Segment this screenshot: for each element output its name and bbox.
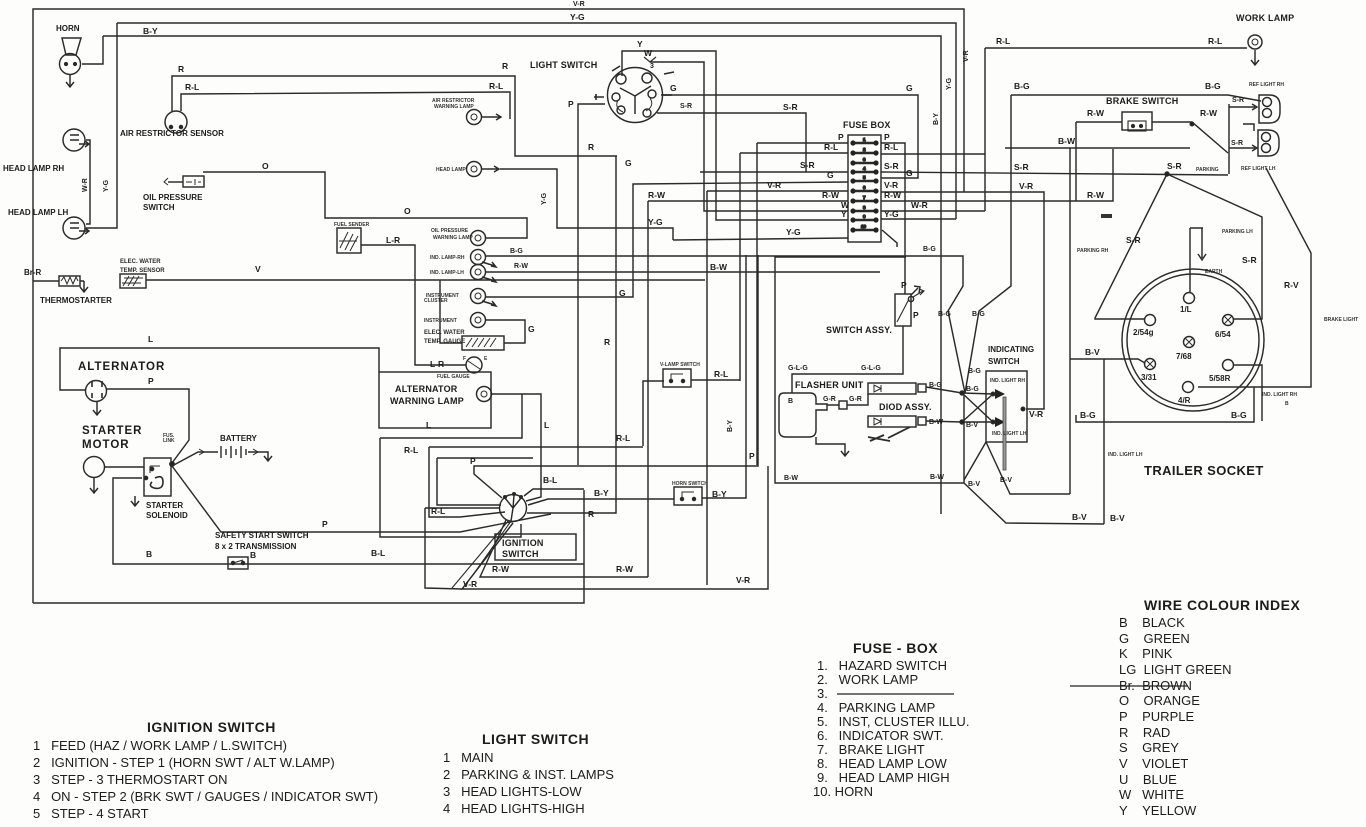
svg-text:B-G: B-G xyxy=(923,246,936,253)
svg-text:TEMP. GAUGE: TEMP. GAUGE xyxy=(424,339,465,345)
svg-text:SWITCH ASSY.: SWITCH ASSY. xyxy=(826,325,892,335)
svg-text:3 HEAD LIGHTS-LOW: 3 HEAD LIGHTS-LOW xyxy=(443,784,582,799)
svg-text:7. BRAKE LIGHT: 7. BRAKE LIGHT xyxy=(817,742,925,757)
svg-text:1 MAIN: 1 MAIN xyxy=(443,750,494,765)
svg-text:B BLACK: B BLACK xyxy=(1119,615,1185,630)
svg-text:5/58R: 5/58R xyxy=(1209,374,1231,383)
svg-text:B-W: B-W xyxy=(929,419,943,426)
svg-text:K PINK: K PINK xyxy=(1119,646,1173,661)
svg-text:B-Y: B-Y xyxy=(727,420,734,432)
svg-text:B-G: B-G xyxy=(1231,410,1247,420)
svg-text:2 PARKING & INST. LAMPS: 2 PARKING & INST. LAMPS xyxy=(443,767,614,782)
svg-text:B-W: B-W xyxy=(1058,136,1076,146)
svg-text:G: G xyxy=(619,288,626,298)
svg-text:R-L: R-L xyxy=(489,81,503,91)
svg-text:IND. LIGHT LH: IND. LIGHT LH xyxy=(1108,452,1143,458)
svg-text:P PURPLE: P PURPLE xyxy=(1119,709,1194,724)
svg-text:R-W: R-W xyxy=(1087,190,1105,200)
svg-text:SWITCH: SWITCH xyxy=(502,549,539,559)
svg-text:O: O xyxy=(404,206,411,216)
svg-text:G: G xyxy=(906,168,913,178)
svg-text:HORN SWITCH: HORN SWITCH xyxy=(672,481,708,487)
svg-text:P: P xyxy=(884,132,890,142)
svg-text:B-V: B-V xyxy=(1085,347,1100,357)
svg-text:S GREY: S GREY xyxy=(1119,740,1179,755)
svg-text:B-V: B-V xyxy=(1072,512,1087,522)
svg-text:R-L: R-L xyxy=(1208,36,1222,46)
svg-text:LIGHT SWITCH: LIGHT SWITCH xyxy=(482,731,589,747)
svg-text:S-R: S-R xyxy=(1014,162,1029,172)
svg-text:S-R: S-R xyxy=(680,103,692,110)
svg-text:DIOD ASSY.: DIOD ASSY. xyxy=(879,402,932,412)
svg-text:O: O xyxy=(262,161,269,171)
svg-text:ALTERNATOR: ALTERNATOR xyxy=(78,361,165,373)
svg-text:Y-G: Y-G xyxy=(648,217,663,227)
svg-text:B: B xyxy=(146,549,152,559)
svg-text:R-W: R-W xyxy=(822,190,840,200)
svg-text:9. HEAD LAMP HIGH: 9. HEAD LAMP HIGH xyxy=(817,770,950,785)
svg-text:R: R xyxy=(604,337,610,347)
svg-text:R-L: R-L xyxy=(996,36,1010,46)
svg-text:R: R xyxy=(588,509,594,519)
svg-text:MOTOR: MOTOR xyxy=(82,439,130,451)
svg-text:6. INDICATOR SWT.: 6. INDICATOR SWT. xyxy=(817,728,944,743)
svg-text:1 FEED (HAZ / WORK LAMP / L.: 1 FEED (HAZ / WORK LAMP / L.SWITCH) xyxy=(33,738,287,753)
svg-text:R-L: R-L xyxy=(884,142,898,152)
svg-text:B-G: B-G xyxy=(972,311,985,318)
svg-text:SOLENOID: SOLENOID xyxy=(146,511,188,520)
svg-text:R-W: R-W xyxy=(616,564,634,574)
svg-text:S-R: S-R xyxy=(884,161,899,171)
svg-text:3.: 3. xyxy=(817,686,828,701)
svg-text:V-R: V-R xyxy=(463,579,477,589)
svg-text:U BLUE: U BLUE xyxy=(1119,772,1177,787)
svg-text:V-R: V-R xyxy=(767,180,781,190)
svg-text:S-R: S-R xyxy=(1232,97,1244,104)
svg-text:S-R: S-R xyxy=(1167,161,1182,171)
svg-text:2/54g: 2/54g xyxy=(1133,328,1154,337)
svg-text:B-Y: B-Y xyxy=(143,26,158,36)
svg-text:B-W: B-W xyxy=(930,474,944,481)
svg-text:R: R xyxy=(178,64,184,74)
svg-text:4 HEAD LIGHTS-HIGH: 4 HEAD LIGHTS-HIGH xyxy=(443,801,585,816)
svg-text:G-R: G-R xyxy=(823,396,836,403)
svg-text:W-R: W-R xyxy=(82,178,89,192)
svg-text:V-R: V-R xyxy=(1019,181,1033,191)
svg-text:SWITCH: SWITCH xyxy=(143,203,175,212)
svg-text:5. INST, CLUSTER ILLU.: 5. INST, CLUSTER ILLU. xyxy=(817,714,969,729)
svg-text:B-V: B-V xyxy=(968,481,980,488)
svg-text:R-L: R-L xyxy=(431,506,445,516)
svg-text:Y-G: Y-G xyxy=(786,227,801,237)
svg-text:FUEL SENDER: FUEL SENDER xyxy=(334,222,370,228)
svg-text:EARTH: EARTH xyxy=(1205,269,1223,275)
svg-text:AIR RESTRICTOR SENSOR: AIR RESTRICTOR SENSOR xyxy=(120,129,224,138)
svg-text:PARKING: PARKING xyxy=(1196,167,1219,173)
svg-text:1/L: 1/L xyxy=(1180,305,1192,314)
svg-text:L-R: L-R xyxy=(430,359,444,369)
svg-text:B-V: B-V xyxy=(1000,477,1012,484)
svg-text:R-W: R-W xyxy=(884,190,902,200)
svg-text:V-R: V-R xyxy=(736,575,750,585)
svg-text:B-Y: B-Y xyxy=(712,489,727,499)
svg-text:WIRE COLOUR INDEX: WIRE COLOUR INDEX xyxy=(1144,597,1300,613)
svg-text:L-R: L-R xyxy=(386,235,400,245)
svg-text:4 ON - STEP 2 (BRK SWT / GAU: 4 ON - STEP 2 (BRK SWT / GAUGES / INDICA… xyxy=(33,789,378,804)
svg-text:B-G: B-G xyxy=(1014,81,1030,91)
svg-text:G GREEN: G GREEN xyxy=(1119,631,1190,646)
svg-text:IND. LIGHT LH: IND. LIGHT LH xyxy=(992,431,1027,437)
svg-text:W-R: W-R xyxy=(911,200,928,210)
svg-text:IGNITION: IGNITION xyxy=(502,538,544,548)
svg-text:B-Y: B-Y xyxy=(594,488,609,498)
svg-text:W WHITE: W WHITE xyxy=(1119,787,1184,802)
svg-text:G: G xyxy=(528,324,535,334)
svg-text:B: B xyxy=(250,550,256,560)
svg-text:ELEC. WATER: ELEC. WATER xyxy=(120,259,161,265)
svg-text:IGNITION SWITCH: IGNITION SWITCH xyxy=(147,719,276,735)
svg-text:R RAD: R RAD xyxy=(1119,725,1170,740)
svg-text:STARTER: STARTER xyxy=(146,501,183,510)
svg-text:FLASHER UNIT: FLASHER UNIT xyxy=(795,380,864,390)
svg-text:HEAD LAMP RH: HEAD LAMP RH xyxy=(3,164,64,173)
svg-text:B-W: B-W xyxy=(784,475,798,482)
svg-text:INDICATING: INDICATING xyxy=(988,345,1034,354)
svg-text:R-W: R-W xyxy=(514,263,528,270)
svg-text:TEMP. SENSOR: TEMP. SENSOR xyxy=(120,268,165,274)
svg-text:L: L xyxy=(544,420,549,430)
svg-text:PARKING RH: PARKING RH xyxy=(1077,248,1109,254)
svg-text:L: L xyxy=(148,334,153,344)
svg-text:P: P xyxy=(913,310,919,320)
svg-text:O ORANGE: O ORANGE xyxy=(1119,693,1200,708)
svg-text:10: 10 xyxy=(861,224,867,229)
svg-text:S-R: S-R xyxy=(800,160,815,170)
svg-text:1. HAZARD SWITCH: 1. HAZARD SWITCH xyxy=(817,658,947,673)
svg-text:LG LIGHT GREEN: LG LIGHT GREEN xyxy=(1119,662,1231,677)
svg-text:Y-G: Y-G xyxy=(570,12,585,22)
svg-text:B: B xyxy=(1285,401,1289,407)
svg-text:V: V xyxy=(255,264,261,274)
svg-text:B-G: B-G xyxy=(1080,410,1096,420)
svg-text:R-W: R-W xyxy=(1200,108,1218,118)
svg-text:B-G: B-G xyxy=(966,386,979,393)
svg-text:V-R: V-R xyxy=(884,180,898,190)
svg-text:B-V: B-V xyxy=(1110,513,1125,523)
svg-text:P: P xyxy=(901,280,907,290)
svg-text:HORN: HORN xyxy=(56,24,80,33)
svg-text:IND. LIGHT RH: IND. LIGHT RH xyxy=(990,378,1025,384)
svg-text:V-LAMP SWITCH: V-LAMP SWITCH xyxy=(660,362,700,368)
svg-text:4/R: 4/R xyxy=(1178,396,1191,405)
svg-text:F: F xyxy=(463,356,466,362)
svg-text:Y: Y xyxy=(841,209,847,219)
svg-text:PARKING LH: PARKING LH xyxy=(1222,229,1253,235)
svg-text:R: R xyxy=(502,61,508,71)
svg-text:R-L: R-L xyxy=(404,445,418,455)
svg-text:4. PARKING LAMP: 4. PARKING LAMP xyxy=(817,700,935,715)
svg-text:B-L: B-L xyxy=(371,548,385,558)
svg-text:G: G xyxy=(670,83,677,93)
svg-text:B-Y: B-Y xyxy=(933,113,940,125)
svg-text:CLUSTER: CLUSTER xyxy=(424,298,448,304)
svg-text:SWITCH: SWITCH xyxy=(988,357,1020,366)
svg-text:B-G: B-G xyxy=(510,248,523,255)
svg-text:REF LIGHT LH: REF LIGHT LH xyxy=(1241,166,1276,172)
svg-text:STARTER: STARTER xyxy=(82,425,142,437)
svg-text:R-L: R-L xyxy=(185,82,199,92)
svg-text:Y-G: Y-G xyxy=(541,192,548,205)
svg-text:Y-G: Y-G xyxy=(884,209,899,219)
svg-text:G-L-G: G-L-G xyxy=(861,365,881,372)
svg-text:B-G: B-G xyxy=(929,382,942,389)
svg-text:B-G: B-G xyxy=(938,311,951,318)
svg-text:V VIOLET: V VIOLET xyxy=(1119,756,1188,771)
svg-text:V-R: V-R xyxy=(1029,409,1043,419)
svg-text:IND. LIGHT RH: IND. LIGHT RH xyxy=(1262,392,1297,398)
svg-text:Y YELLOW: Y YELLOW xyxy=(1119,803,1197,818)
svg-text:10. HORN: 10. HORN xyxy=(813,784,873,799)
svg-text:B-G: B-G xyxy=(968,368,981,375)
svg-text:WORK LAMP: WORK LAMP xyxy=(1236,13,1294,23)
svg-text:WARNING LAMP: WARNING LAMP xyxy=(434,104,474,110)
svg-text:P: P xyxy=(322,519,328,529)
svg-text:G-R: G-R xyxy=(849,396,862,403)
svg-text:Br-R: Br-R xyxy=(24,268,42,277)
svg-text:P: P xyxy=(148,376,154,386)
svg-text:TRAILER SOCKET: TRAILER SOCKET xyxy=(1144,463,1264,478)
svg-text:R-W: R-W xyxy=(648,190,666,200)
svg-text:6/54: 6/54 xyxy=(1215,330,1231,339)
svg-text:THERMOSTARTER: THERMOSTARTER xyxy=(40,296,112,305)
svg-text:WARNING LAMP: WARNING LAMP xyxy=(433,235,473,241)
svg-text:B-V: B-V xyxy=(966,422,978,429)
svg-text:BATTERY: BATTERY xyxy=(220,434,258,443)
svg-text:G: G xyxy=(827,170,834,180)
svg-text:8. HEAD LAMP LOW: 8. HEAD LAMP LOW xyxy=(817,756,948,771)
svg-text:S-R: S-R xyxy=(1242,255,1257,265)
svg-text:3: 3 xyxy=(650,63,654,70)
svg-text:G: G xyxy=(625,158,632,168)
svg-text:R-L: R-L xyxy=(824,142,838,152)
svg-text:3/31: 3/31 xyxy=(1141,373,1157,382)
svg-text:R-W: R-W xyxy=(492,564,510,574)
svg-text:FUSE - BOX: FUSE - BOX xyxy=(853,640,938,656)
svg-text:W: W xyxy=(644,48,653,58)
svg-text:V-R: V-R xyxy=(963,50,970,62)
svg-text:REF LIGHT RH: REF LIGHT RH xyxy=(1249,82,1284,88)
svg-text:SAFETY START SWITCH: SAFETY START SWITCH xyxy=(215,531,309,540)
svg-text:B-W: B-W xyxy=(710,262,728,272)
svg-text:S-R: S-R xyxy=(1231,140,1243,147)
svg-text:3 STEP - 3 THERMOSTART ON: 3 STEP - 3 THERMOSTART ON xyxy=(33,772,228,787)
svg-text:LINK: LINK xyxy=(163,438,175,444)
svg-text:7/68: 7/68 xyxy=(1176,352,1192,361)
svg-text:P: P xyxy=(470,456,476,466)
svg-text:R-L: R-L xyxy=(714,369,728,379)
svg-text:2. WORK LAMP: 2. WORK LAMP xyxy=(817,672,918,687)
svg-text:BRAKE SWITCH: BRAKE SWITCH xyxy=(1106,96,1178,106)
svg-text:R-V: R-V xyxy=(1284,280,1299,290)
svg-text:Y-G: Y-G xyxy=(103,179,110,192)
svg-text:WARNING LAMP: WARNING LAMP xyxy=(390,396,464,406)
svg-text:FUSE BOX: FUSE BOX xyxy=(843,120,891,130)
svg-text:B-G: B-G xyxy=(1205,81,1221,91)
svg-text:P: P xyxy=(568,99,574,109)
svg-text:ALTERNATOR: ALTERNATOR xyxy=(395,384,458,394)
svg-text:HEAD LAMP LH: HEAD LAMP LH xyxy=(8,208,69,217)
svg-text:FUEL GAUGE: FUEL GAUGE xyxy=(437,374,470,380)
svg-text:INSTRUMENT: INSTRUMENT xyxy=(424,318,457,324)
svg-text:V-R: V-R xyxy=(573,1,585,8)
svg-text:R-L: R-L xyxy=(616,433,630,443)
svg-text:BRAKE LIGHT: BRAKE LIGHT xyxy=(1324,317,1358,323)
svg-text:B: B xyxy=(788,398,793,405)
svg-text:Y: Y xyxy=(637,39,643,49)
svg-text:OIL PRESSURE: OIL PRESSURE xyxy=(143,193,203,202)
svg-text:B-L: B-L xyxy=(543,475,557,485)
svg-text:OIL PRESSURE: OIL PRESSURE xyxy=(431,228,469,234)
svg-text:P: P xyxy=(749,451,755,461)
svg-text:R-W: R-W xyxy=(1087,108,1105,118)
svg-text:LIGHT SWITCH: LIGHT SWITCH xyxy=(530,60,597,70)
svg-text:HEAD LAMP: HEAD LAMP xyxy=(436,167,466,173)
svg-text:S-R: S-R xyxy=(1126,235,1141,245)
svg-text:P: P xyxy=(838,132,844,142)
svg-text:R: R xyxy=(588,142,594,152)
svg-text:2 IGNITION - STEP 1 (HORN SW: 2 IGNITION - STEP 1 (HORN SWT / ALT W.LA… xyxy=(33,755,335,770)
svg-text:5 STEP - 4 START: 5 STEP - 4 START xyxy=(33,806,149,821)
svg-text:G-L-G: G-L-G xyxy=(788,365,808,372)
svg-text:L: L xyxy=(426,420,431,430)
svg-text:Y-G: Y-G xyxy=(946,77,953,90)
svg-text:S-R: S-R xyxy=(783,102,798,112)
svg-text:G: G xyxy=(906,83,913,93)
svg-text:IND. LAMP-LH: IND. LAMP-LH xyxy=(430,270,464,276)
svg-text:IND. LAMP-RH: IND. LAMP-RH xyxy=(430,255,465,261)
svg-text:ELEC. WATER: ELEC. WATER xyxy=(424,330,465,336)
